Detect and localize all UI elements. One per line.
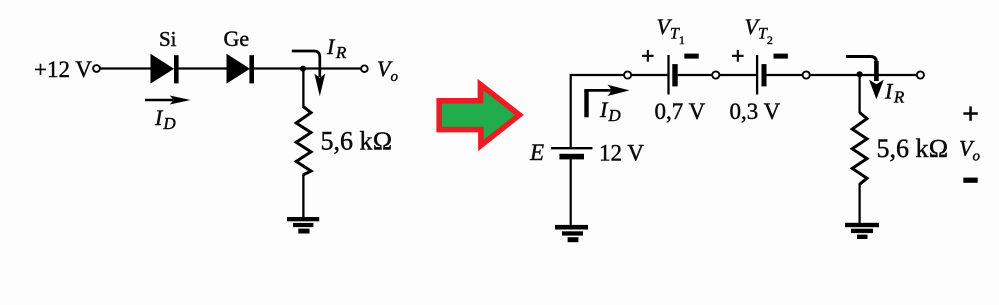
wire terminal a to battery VT1 [631, 74, 668, 76]
terminal Vo left [361, 65, 368, 72]
wire terminal c to output terminal right [810, 74, 917, 76]
svg-text:5,6 kΩ: 5,6 kΩ [877, 134, 949, 163]
wire battery VT2 to terminal c [767, 74, 803, 76]
minus sign output [963, 178, 977, 183]
svg-text:+: + [962, 98, 979, 131]
wire between diodes [179, 67, 227, 69]
terminal c [803, 71, 810, 78]
svg-text:+: + [731, 44, 745, 70]
diode D2 Ge cathode bar [249, 55, 254, 83]
node junction dot right [857, 71, 863, 77]
terminal +12V [93, 65, 100, 72]
current hook IR left [292, 51, 320, 77]
wire node to resistor R right [858, 74, 860, 113]
arrowhead IR left [314, 74, 325, 96]
battery VT2 long plate [756, 55, 758, 95]
svg-text:5,6 kΩ: 5,6 kΩ [321, 127, 393, 156]
diode D1 Si cathode bar [174, 55, 179, 83]
wire from diode D2 to output terminal [254, 67, 361, 69]
ground right circuit [845, 223, 879, 239]
green transformation arrow [439, 85, 519, 146]
wire resistor R2 to ground [858, 184, 860, 225]
terminal a [624, 71, 631, 78]
arrowhead ID right [608, 85, 630, 96]
battery VT2 short thick plate [762, 64, 767, 86]
wire top left corner right circuit [571, 75, 624, 148]
current hook IR right [846, 57, 876, 69]
wire node to resistor R left [302, 69, 304, 108]
diode D1 Si triangle [151, 54, 175, 84]
wire battery E to ground [570, 159, 572, 227]
svg-text:0,7 V: 0,7 V [655, 99, 706, 124]
wire terminal b to battery VT2 [720, 74, 757, 76]
terminal b [712, 71, 719, 78]
svg-text:Si: Si [159, 27, 177, 51]
ground battery E [555, 225, 588, 242]
resistor R2 5.6k zigzag [852, 113, 867, 185]
battery E short thick plate [559, 154, 584, 160]
resistor R1 5.6k zigzag [296, 107, 311, 175]
battery VT1 short thick plate [672, 64, 677, 86]
battery E long plate [551, 147, 593, 149]
diode D2 Ge triangle [227, 54, 251, 84]
minus sign VT2 [774, 54, 788, 59]
svg-text:+: + [641, 44, 655, 70]
svg-text:Ge: Ge [224, 26, 250, 51]
svg-text:12 V: 12 V [599, 141, 644, 166]
current arrow ID left [145, 96, 191, 105]
svg-text:0,3 V: 0,3 V [730, 99, 781, 124]
arrowhead IR right [869, 80, 884, 100]
ground left circuit [287, 217, 319, 234]
wire resistor R1 to ground [302, 174, 304, 220]
terminal Vo right [917, 71, 924, 78]
svg-text:E: E [529, 140, 544, 165]
node junction dot left [300, 66, 306, 72]
wire battery VT1 to terminal b [678, 74, 713, 76]
wire from +12V terminal to diode D1 [101, 67, 152, 69]
current hook ID right [584, 91, 588, 118]
svg-text:+12 V: +12 V [34, 57, 92, 82]
minus sign VT1 [684, 54, 698, 59]
battery VT1 long plate [667, 55, 669, 95]
